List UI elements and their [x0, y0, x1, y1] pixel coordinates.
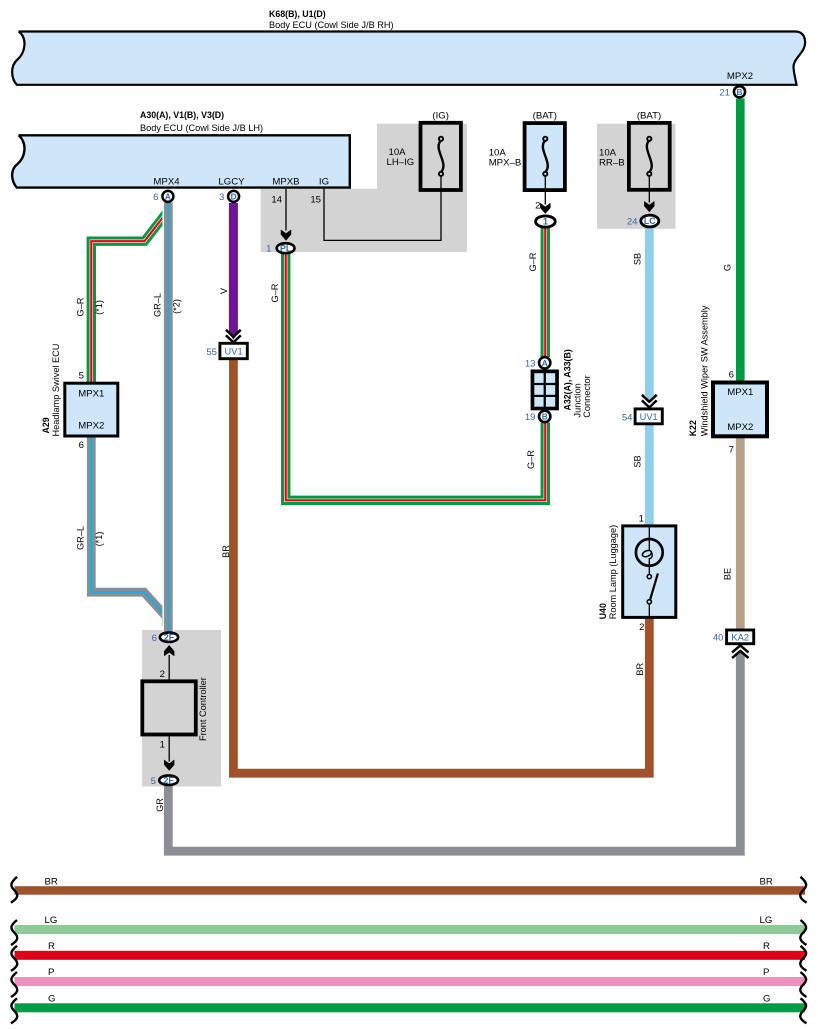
- svg-text:UV1: UV1: [640, 412, 658, 422]
- svg-text:Windshield Wiper SW Assembly: Windshield Wiper SW Assembly: [700, 305, 710, 436]
- wire SB: from LC(24) down to UV1(54): [645, 228, 654, 396]
- svg-text:2: 2: [535, 201, 540, 212]
- connector box KA2 pin 40: [727, 630, 754, 644]
- svg-text:1: 1: [160, 739, 165, 750]
- svg-text:2F: 2F: [164, 632, 175, 642]
- svg-text:UV1: UV1: [225, 347, 243, 357]
- switch terminal bottom: [647, 600, 651, 604]
- svg-text:KA2: KA2: [731, 632, 749, 642]
- wire BE beige: from K22 pin 7 down to KA2(40): [736, 437, 745, 631]
- svg-text:24: 24: [627, 217, 638, 228]
- svg-text:(*1): (*1): [94, 532, 104, 547]
- Front Controller arrow up: [164, 645, 174, 656]
- svg-text:V: V: [219, 287, 229, 294]
- connector box UV1 pin 55: [220, 343, 247, 358]
- svg-text:(*1): (*1): [94, 300, 104, 315]
- Front Controller pin 2 wire: [168, 655, 170, 682]
- svg-text:3: 3: [219, 192, 224, 203]
- wire GR arrow tip pointing up: [736, 649, 745, 656]
- svg-text:(BAT): (BAT): [637, 111, 661, 122]
- switch blade: [650, 573, 658, 600]
- svg-text:MPX1: MPX1: [727, 387, 753, 398]
- svg-text:G–R: G–R: [526, 450, 536, 469]
- fuse MPX-B arrow: [540, 203, 550, 214]
- svg-text:MPX2: MPX2: [727, 71, 753, 82]
- svg-text:IG: IG: [319, 177, 329, 188]
- svg-text:LGCY: LGCY: [218, 177, 245, 188]
- svg-text:A: A: [165, 192, 171, 202]
- svg-text:G–R: G–R: [528, 252, 538, 271]
- junction connector circle B pin 19: [539, 411, 550, 422]
- svg-text:Body ECU (Cowl Side J/B LH): Body ECU (Cowl Side J/B LH): [140, 123, 263, 133]
- chevrons at end of wire V: [226, 330, 241, 343]
- svg-text:BR: BR: [221, 545, 231, 558]
- svg-text:G: G: [48, 993, 55, 1004]
- wire SB: from UV1(54) down to U40 pin 1: [645, 424, 654, 527]
- bottom bus bar R: [15, 951, 806, 960]
- fuse RR-B arrow: [644, 201, 654, 212]
- connector circle B pin 21 under K68 bar: [734, 86, 745, 97]
- connector box UV1 pin 54: [635, 409, 662, 424]
- svg-text:PL: PL: [280, 243, 292, 253]
- Body ECU (Cowl Side J/B RH) bus bar K68(B),U1(D): [12, 32, 805, 85]
- wire BR brown: from UV1(55) down, right, up to U40 pin 2: [233, 359, 649, 774]
- pin 14 wire from MPXB: [285, 189, 287, 231]
- svg-text:G–R: G–R: [76, 297, 86, 316]
- svg-text:MPXB: MPXB: [272, 177, 299, 188]
- svg-text:MPX4: MPX4: [153, 177, 180, 188]
- svg-text:(BAT): (BAT): [533, 111, 557, 122]
- svg-text:5: 5: [79, 371, 84, 382]
- svg-text:19: 19: [525, 412, 536, 423]
- svg-text:SB: SB: [633, 253, 643, 265]
- switch box K22 Windshield Wiper SW Assembly: [713, 383, 767, 437]
- svg-text:LC: LC: [644, 216, 656, 226]
- connector ellipse 1 below fuse MPX-B: [536, 216, 556, 227]
- svg-text:R: R: [763, 941, 770, 952]
- svg-text:A30(A), V1(B), V3(D): A30(A), V1(B), V3(D): [140, 110, 224, 120]
- svg-text:B: B: [542, 412, 548, 422]
- lamp to switch lead: [648, 566, 650, 575]
- svg-text:D: D: [231, 192, 237, 202]
- svg-text:BE: BE: [723, 568, 733, 580]
- svg-text:BR: BR: [760, 876, 773, 887]
- svg-text:GR–L: GR–L: [153, 293, 163, 317]
- ECU box A29 Headlamp Swivel ECU: [65, 383, 118, 436]
- Body ECU (Cowl Side J/B LH) bus bar A30(A),V1(B),V3(D): [12, 135, 350, 187]
- svg-text:A29: A29: [41, 417, 51, 433]
- svg-text:2: 2: [160, 669, 165, 680]
- lamp bulb circle: [636, 539, 663, 566]
- svg-text:MPX2: MPX2: [78, 420, 104, 431]
- svg-text:Headlamp Swivel ECU: Headlamp Swivel ECU: [51, 344, 61, 437]
- svg-text:14: 14: [271, 194, 282, 205]
- svg-text:G: G: [763, 993, 770, 1004]
- fuse MPX-B box: [525, 123, 565, 190]
- fuse RR-B element: [647, 141, 652, 173]
- junction connector A32(A),A33(B) grid box: [531, 370, 559, 411]
- connector circle A pin 6 under A30 bar: [162, 191, 173, 202]
- svg-text:(*2): (*2): [172, 299, 182, 314]
- svg-text:R: R: [48, 941, 55, 952]
- svg-text:21: 21: [719, 87, 730, 98]
- svg-text:40: 40: [713, 633, 724, 644]
- fuse MPX-B element: [543, 141, 548, 173]
- svg-text:1: 1: [639, 514, 644, 525]
- svg-text:Room Lamp (Luggage): Room Lamp (Luggage): [608, 525, 618, 619]
- svg-text:Body ECU (Cowl Side J/B RH): Body ECU (Cowl Side J/B RH): [269, 20, 394, 30]
- connector ellipse 2F pin 5 below Front Controller: [159, 775, 178, 785]
- bottom bus bar G: [15, 1003, 806, 1012]
- svg-text:1: 1: [543, 217, 548, 227]
- svg-text:Junction: Junction: [573, 383, 583, 417]
- connector ellipse LC pin 24: [641, 215, 659, 227]
- grey background region around Front Controller: [142, 630, 221, 787]
- svg-text:A32(A), A33(B): A32(A), A33(B): [563, 349, 573, 410]
- svg-text:LH–IG: LH–IG: [387, 157, 415, 168]
- svg-text:15: 15: [310, 194, 321, 205]
- bottom bus bar BR: [15, 886, 806, 895]
- svg-text:6: 6: [79, 440, 84, 451]
- junction connector circle A pin 13: [539, 357, 550, 368]
- wire V arrow tip: [229, 333, 238, 340]
- connector ellipse 2F pin 6 above Front Controller: [160, 632, 178, 642]
- chevrons pointing up below KA2: [732, 645, 748, 658]
- svg-text:6: 6: [729, 370, 734, 381]
- svg-text:LG: LG: [760, 915, 773, 926]
- bottom bus bar P: [15, 977, 806, 986]
- svg-text:1: 1: [266, 244, 271, 255]
- svg-text:5: 5: [151, 776, 156, 787]
- lamp filament: [648, 540, 650, 551]
- svg-text:BR: BR: [635, 663, 645, 676]
- grey background region around fuse RR-B: [597, 124, 676, 229]
- svg-text:MPX2: MPX2: [727, 422, 753, 433]
- chevrons at end of wire SB: [642, 395, 657, 408]
- svg-text:BR: BR: [45, 876, 58, 887]
- svg-text:K68(B), U1(D): K68(B), U1(D): [269, 9, 326, 19]
- svg-text:SB: SB: [633, 455, 643, 467]
- svg-text:6: 6: [153, 192, 158, 203]
- wire G-R: from connector 1 below fuse MPX-B down to junction A(13): [541, 228, 550, 357]
- svg-text:7: 7: [729, 445, 734, 456]
- wire G-R (*1): branch from A(6) diagonal to A29 pin 5: [91, 204, 167, 384]
- svg-text:B: B: [737, 87, 743, 97]
- svg-text:G–R: G–R: [270, 283, 280, 302]
- svg-text:P: P: [763, 967, 769, 978]
- switch lower lead: [648, 604, 650, 617]
- connector circle D pin 3 under A30 bar: [228, 191, 239, 202]
- wire SB arrow tip: [645, 395, 654, 402]
- svg-text:54: 54: [622, 412, 633, 423]
- svg-text:13: 13: [525, 358, 536, 369]
- switch terminal top: [647, 575, 651, 579]
- wire V violet: from D(3) down to UV1(55): [229, 203, 238, 335]
- svg-text:U40: U40: [598, 603, 608, 619]
- svg-text:Connector: Connector: [582, 375, 592, 417]
- svg-text:A: A: [542, 358, 548, 368]
- lamp box U40 Room Lamp (Luggage): [623, 526, 676, 618]
- wire GR-L (*2): main line from A(6) down to 2F(6): [162, 203, 174, 632]
- fuse MPX-B pin 2 wire: [544, 176, 546, 205]
- svg-text:6: 6: [152, 633, 157, 644]
- fuse LH-IG box: [421, 123, 461, 190]
- wire G-R: from junction B(19) down, left, up to PL(1): [286, 254, 546, 501]
- svg-text:GR–L: GR–L: [76, 526, 86, 550]
- svg-text:2: 2: [639, 622, 644, 633]
- svg-text:K22: K22: [688, 420, 698, 436]
- fuse RR-B box: [629, 123, 670, 190]
- connector ellipse PL pin 1: [277, 243, 295, 253]
- svg-text:MPX1: MPX1: [78, 388, 104, 399]
- svg-text:(IG): (IG): [432, 111, 449, 122]
- svg-text:55: 55: [206, 347, 217, 358]
- wire GR-L (*1): from A29 pin 6 down and diagonal to main line: [91, 435, 166, 626]
- bottom bus bar LG: [15, 925, 806, 934]
- svg-text:GR: GR: [155, 798, 165, 812]
- pin 15 wire from IG to fuse LH-IG: [324, 176, 441, 240]
- Front Controller box: [142, 681, 196, 734]
- svg-text:2F: 2F: [163, 775, 174, 785]
- grey background region around fuse LH-IG: [261, 124, 467, 252]
- fuse RR-B pin wire: [648, 176, 650, 203]
- Front Controller pin 1 wire: [168, 735, 170, 762]
- wire GR grey: from 2F(5) down, right, up to chevrons below KA2: [168, 654, 740, 851]
- pin 14 arrow: [281, 230, 291, 241]
- svg-text:P: P: [48, 967, 54, 978]
- lamp internal lead: [648, 527, 650, 540]
- svg-text:MPX–B: MPX–B: [489, 158, 522, 169]
- fuse LH-IG element: [439, 141, 444, 173]
- svg-text:G: G: [723, 264, 733, 271]
- svg-text:LG: LG: [45, 915, 58, 926]
- wire G green: from B(21) of K68 down to K22 pin 6: [736, 98, 745, 382]
- svg-text:RR–B: RR–B: [599, 158, 625, 169]
- svg-text:Front Controller: Front Controller: [198, 677, 208, 741]
- Front Controller arrow down: [164, 760, 174, 771]
